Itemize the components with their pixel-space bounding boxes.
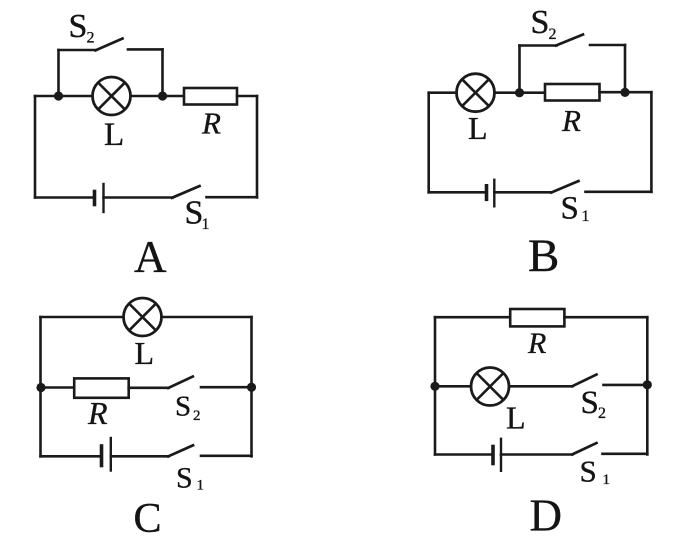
svg-text:R: R — [87, 395, 108, 431]
wire: C top-right segment — [162, 316, 252, 319]
wire: D right vertical — [646, 317, 649, 454]
switch S2 contact wire (C) — [201, 386, 252, 389]
wire: C bottom-left to battery — [41, 455, 102, 458]
battery (circuit A) short plate — [93, 192, 97, 205]
svg-text:R: R — [561, 103, 581, 138]
wire: A battery to switch S1 — [104, 196, 173, 199]
wire: A lamp-to-resistor segment — [130, 95, 184, 98]
switch S2 contact wire (B) — [590, 44, 625, 47]
resistor R (circuit A) — [184, 88, 237, 105]
svg-text:S: S — [580, 454, 597, 489]
wire: D top-left segment — [435, 316, 510, 319]
node: C left junction dot — [36, 383, 45, 392]
svg-text:2: 2 — [193, 408, 201, 424]
wire: A top-left segment — [35, 95, 93, 98]
switch S1 blade (circuit A) — [172, 186, 200, 198]
svg-text:1: 1 — [582, 208, 590, 225]
svg-text:L: L — [468, 110, 488, 146]
wire: C battery to switch S1 — [111, 455, 169, 458]
wire: S2 branch right vertical (A) — [161, 49, 164, 96]
node: B left junction dot — [515, 88, 524, 97]
wire: C junction to resistor — [41, 386, 75, 389]
svg-text:1: 1 — [603, 472, 611, 488]
svg-text:A: A — [134, 232, 167, 282]
wire: A resistor to right corner — [237, 95, 257, 98]
wire: S2 branch right vertical (B) — [624, 45, 627, 92]
wire: B left to lamp — [429, 91, 457, 94]
svg-text:L: L — [506, 400, 526, 436]
node: A left junction dot — [54, 91, 63, 100]
wire: B bottom-left to battery — [429, 191, 486, 194]
svg-text:S: S — [175, 391, 191, 423]
wire: C right vertical — [250, 317, 253, 456]
wire: D lamp to switch S2 — [509, 385, 572, 388]
wire: S2 branch left vertical (B) — [518, 46, 521, 93]
svg-text:2: 2 — [598, 405, 606, 422]
svg-text:S: S — [69, 8, 88, 45]
resistor R (circuit C) — [74, 378, 129, 397]
svg-text:C: C — [134, 496, 162, 542]
resistor R (circuit D) — [510, 309, 564, 326]
svg-text:L: L — [104, 117, 124, 153]
switch S1 contact wire (D) — [603, 452, 648, 455]
wire: C top-left segment — [41, 316, 124, 319]
wire: D top-right segment — [564, 316, 647, 319]
wire: A left vertical — [34, 96, 37, 198]
wire: C left vertical — [39, 317, 42, 456]
switch S1 blade (circuit B) — [551, 181, 578, 193]
battery (circuit A) long plate — [102, 184, 104, 212]
switch S1 blade (circuit D) — [572, 443, 596, 454]
battery (circuit D) long plate — [500, 439, 502, 471]
lamp L (circuit D) — [471, 368, 509, 406]
node: D right junction dot — [643, 380, 652, 389]
svg-text:1: 1 — [197, 478, 205, 494]
switch S1 contact wire (circuit A) — [207, 196, 258, 199]
svg-text:2: 2 — [549, 26, 557, 43]
switch S2 blade (circuit A) — [96, 39, 123, 51]
battery (circuit C) long plate — [110, 438, 112, 471]
svg-text:R: R — [527, 327, 546, 360]
switch S2 contact wire (D) — [604, 384, 648, 387]
svg-text:B: B — [528, 230, 559, 282]
lamp L (circuit C) — [124, 298, 162, 336]
svg-text:S: S — [561, 191, 579, 227]
switch S2 contact wire (A) — [128, 48, 163, 51]
battery (circuit D) short plate — [491, 447, 495, 464]
wire: A right vertical — [256, 96, 259, 197]
svg-text:S: S — [531, 4, 550, 41]
wire: D junction to lamp — [435, 385, 471, 388]
node: B right junction dot — [620, 88, 629, 97]
switch S2 blade (circuit B) — [556, 35, 583, 46]
battery (circuit B) long plate — [493, 180, 495, 207]
switch S2 blade (circuit C) — [168, 377, 193, 389]
svg-text:S: S — [581, 385, 599, 421]
battery (circuit C) short plate — [100, 446, 104, 466]
wire: S2 branch top-left (A) — [59, 49, 97, 52]
wire: B right vertical — [650, 92, 653, 192]
battery (circuit B) short plate — [485, 186, 489, 200]
switch S1 contact wire (B) — [586, 191, 652, 194]
svg-text:S: S — [176, 462, 193, 495]
node: A right junction dot — [158, 91, 167, 100]
switch S1 contact wire (C) — [201, 454, 252, 457]
wire: D left vertical — [434, 317, 437, 454]
wire: B resistor to right corner — [600, 91, 652, 94]
svg-text:D: D — [530, 491, 563, 541]
switch S2 blade (circuit D) — [572, 375, 596, 387]
lamp L (circuit B) — [457, 74, 495, 112]
switch S1 blade (circuit C) — [168, 445, 193, 456]
wire: A bottom-left to battery — [35, 196, 94, 199]
wire: S2 branch top-left (B) — [520, 44, 557, 47]
svg-text:1: 1 — [202, 216, 210, 233]
wire: D bottom-left to battery — [435, 453, 493, 456]
node: C right junction dot — [247, 383, 256, 392]
svg-text:L: L — [135, 335, 155, 371]
wire: B lamp to resistor — [495, 91, 546, 94]
svg-text:R: R — [201, 106, 221, 141]
lamp L (circuit A) — [93, 77, 131, 115]
wire: D battery to switch S1 — [501, 453, 572, 456]
wire: B battery to switch S1 — [494, 191, 551, 194]
wire: C resistor to switch S2 — [129, 386, 169, 389]
resistor R (circuit B) — [545, 84, 600, 101]
wire: B left vertical — [427, 93, 430, 193]
node: D left junction dot — [430, 382, 439, 391]
wire: S2 branch left vertical (A) — [57, 50, 60, 96]
svg-text:2: 2 — [87, 30, 95, 47]
